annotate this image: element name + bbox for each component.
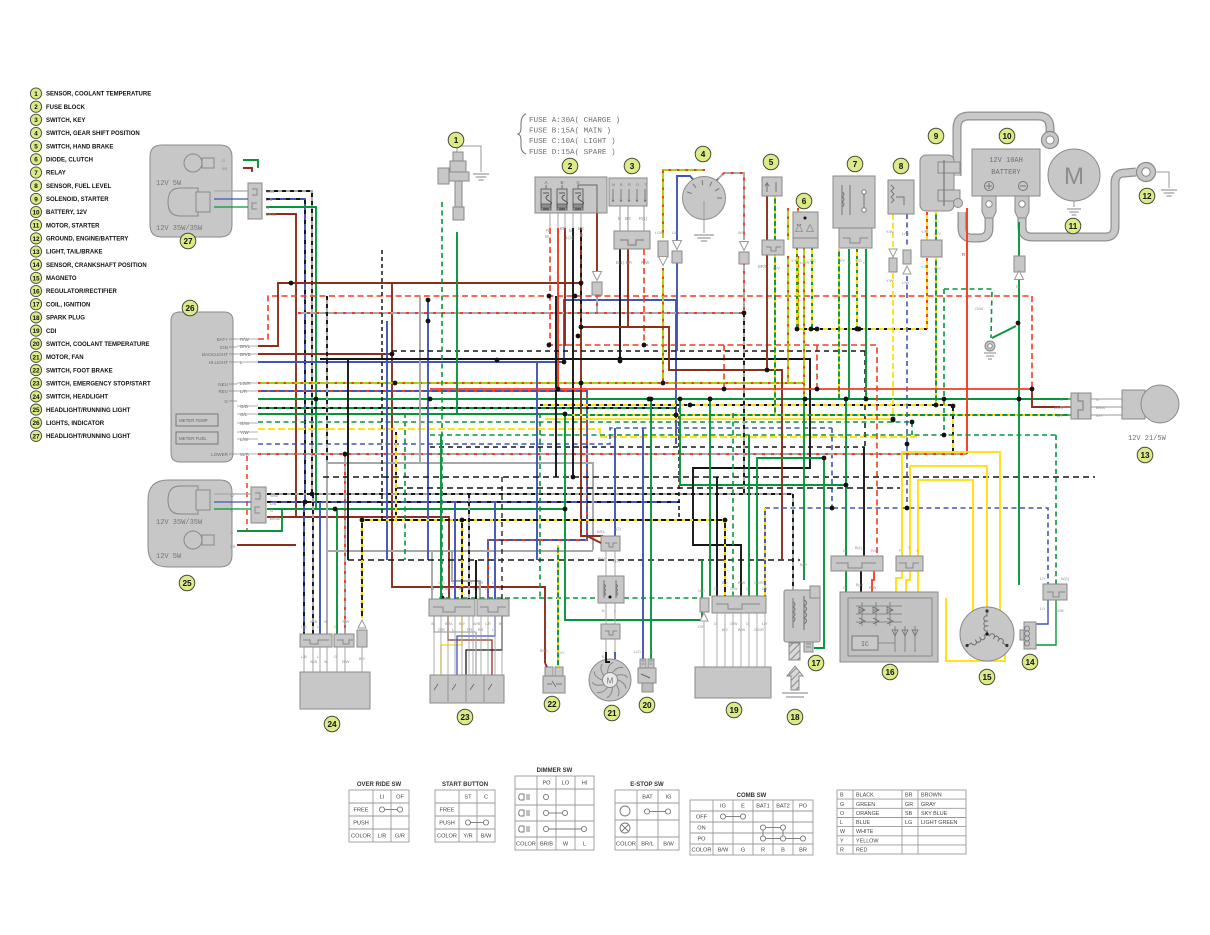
svg-text:M: M — [1064, 163, 1084, 190]
svg-text:G: G — [746, 622, 749, 626]
svg-text:G: G — [863, 260, 866, 265]
svg-text:1: 1 — [34, 91, 38, 98]
svg-text:L: L — [492, 581, 494, 585]
svg-text:BR/B: BR/B — [1054, 406, 1063, 410]
svg-text:GROUND, ENGINE/BATTERY: GROUND, ENGINE/BATTERY — [46, 237, 128, 243]
svg-text:22: 22 — [32, 368, 40, 375]
svg-text:MAGNETO: MAGNETO — [46, 276, 77, 282]
svg-text:L: L — [452, 628, 454, 632]
svg-text:G/Y: G/Y — [838, 258, 845, 263]
svg-text:26: 26 — [32, 420, 40, 427]
svg-text:SWITCH, COOLANT TEMPERATURE: SWITCH, COOLANT TEMPERATURE — [46, 342, 150, 348]
svg-text:R/W: R/W — [641, 260, 649, 265]
svg-text:16: 16 — [32, 288, 40, 295]
svg-text:ORANGE: ORANGE — [856, 811, 880, 817]
svg-text:17: 17 — [32, 302, 40, 309]
svg-text:LOWER: LOWER — [211, 452, 229, 457]
svg-text:B/Y: B/Y — [459, 587, 466, 591]
svg-text:SOLENOID, STARTER: SOLENOID, STARTER — [46, 197, 109, 203]
svg-text:B/Y: B/Y — [722, 581, 729, 585]
svg-text:WHITE: WHITE — [856, 829, 874, 835]
svg-text:11: 11 — [1069, 222, 1078, 231]
svg-text:7: 7 — [34, 170, 38, 177]
svg-text:G: G — [840, 802, 844, 808]
svg-text:BR/L: BR/L — [540, 649, 548, 653]
svg-text:12: 12 — [32, 236, 40, 243]
svg-text:BAT1: BAT1 — [756, 804, 770, 810]
svg-text:MOTOR, STARTER: MOTOR, STARTER — [46, 223, 100, 229]
svg-text:20: 20 — [642, 701, 652, 710]
svg-text:W: W — [563, 842, 569, 848]
svg-text:10: 10 — [32, 209, 40, 216]
svg-text:4: 4 — [701, 150, 706, 159]
svg-text:G/W: G/W — [1056, 609, 1064, 613]
svg-text:12: 12 — [1142, 192, 1152, 201]
svg-text:G/W: G/W — [730, 622, 738, 626]
svg-text:L: L — [583, 842, 586, 848]
svg-text:OF: OF — [396, 795, 404, 801]
svg-text:R/W: R/W — [871, 549, 879, 553]
svg-text:23: 23 — [32, 381, 40, 388]
svg-text:17: 17 — [811, 659, 821, 668]
svg-text:HEADLIGHT/RUNNING LIGHT: HEADLIGHT/RUNNING LIGHT — [46, 434, 131, 440]
svg-text:9: 9 — [934, 132, 939, 141]
svg-text:NEU: NEU — [218, 382, 228, 387]
svg-text:18: 18 — [790, 713, 800, 722]
svg-text:12V 35W/35W: 12V 35W/35W — [156, 225, 203, 233]
svg-text:G: G — [714, 587, 717, 591]
svg-text:W: W — [230, 493, 234, 498]
svg-text:SWITCH, KEY: SWITCH, KEY — [46, 118, 85, 124]
svg-text:9: 9 — [34, 196, 38, 203]
svg-text:BR/L: BR/L — [641, 842, 653, 848]
svg-text:B/W: B/W — [800, 563, 808, 567]
svg-text:BAT+: BAT+ — [217, 337, 229, 342]
svg-text:L/R: L/R — [378, 834, 387, 840]
svg-text:L(1): L(1) — [566, 235, 574, 240]
svg-text:BR: BR — [230, 544, 236, 549]
svg-text:L: L — [614, 609, 616, 613]
svg-text:Y/R: Y/R — [921, 229, 928, 234]
svg-text:R: R — [761, 848, 765, 854]
svg-text:27: 27 — [183, 237, 193, 246]
svg-text:FUSE A:30A( CHARGE ): FUSE A:30A( CHARGE ) — [529, 117, 620, 125]
svg-text:COMB SW: COMB SW — [737, 793, 767, 799]
svg-text:BR/B: BR/B — [266, 212, 276, 217]
svg-text:19: 19 — [32, 328, 40, 335]
svg-text:W: W — [324, 620, 328, 624]
svg-text:B/Y: B/Y — [459, 622, 466, 626]
svg-text:G/Y: G/Y — [558, 651, 565, 655]
svg-text:BACKLIGHT: BACKLIGHT — [202, 352, 228, 357]
svg-text:BR/L: BR/L — [445, 622, 453, 626]
svg-text:R: R — [628, 183, 631, 187]
svg-text:Y: Y — [840, 838, 844, 844]
svg-text:G: G — [230, 530, 233, 535]
svg-text:G: G — [334, 625, 337, 629]
svg-text:1: 1 — [454, 136, 459, 145]
svg-text:G/R: G/R — [698, 589, 705, 593]
svg-text:PUSH: PUSH — [353, 821, 369, 827]
svg-text:L/B: L/B — [266, 197, 272, 202]
svg-text:G: G — [843, 549, 846, 553]
svg-text:ON: ON — [697, 826, 705, 832]
svg-text:BR/B: BR/B — [270, 516, 280, 521]
svg-text:T/R: T/R — [466, 628, 472, 632]
svg-text:27: 27 — [32, 433, 40, 440]
svg-text:GRAY: GRAY — [921, 802, 936, 808]
svg-text:M: M — [612, 183, 615, 187]
svg-text:BAT2: BAT2 — [776, 804, 790, 810]
svg-text:LIGHTS, INDICATOR: LIGHTS, INDICATOR — [46, 421, 105, 427]
svg-text:R: R — [580, 233, 583, 238]
svg-text:BR: BR — [626, 260, 632, 265]
svg-text:BR/B: BR/B — [540, 842, 553, 848]
svg-text:BATTERY: BATTERY — [991, 169, 1021, 177]
svg-text:Y/W: Y/W — [886, 229, 894, 234]
svg-text:24: 24 — [327, 720, 337, 729]
svg-text:LG/R: LG/R — [655, 231, 664, 235]
svg-text:G/W: G/W — [975, 306, 983, 311]
svg-text:W: W — [431, 622, 435, 626]
svg-text:G/GR: G/GR — [754, 581, 764, 585]
svg-text:5: 5 — [769, 158, 774, 167]
svg-text:24: 24 — [32, 394, 40, 401]
svg-text:B: B — [618, 216, 621, 221]
svg-text:PO: PO — [799, 804, 808, 810]
svg-text:SENSOR, CRANKSHAFT POSITION: SENSOR, CRANKSHAFT POSITION — [46, 263, 147, 269]
svg-text:E: E — [741, 804, 745, 810]
svg-text:14: 14 — [1025, 658, 1035, 667]
svg-text:W/B: W/B — [473, 622, 481, 626]
svg-text:6: 6 — [34, 157, 38, 164]
svg-text:BAT: BAT — [642, 795, 653, 801]
svg-text:B/Y: B/Y — [359, 657, 366, 661]
svg-text:C: C — [484, 795, 488, 801]
svg-text:PO: PO — [542, 781, 551, 787]
svg-text:G: G — [714, 622, 717, 626]
svg-text:G: G — [741, 848, 745, 854]
svg-text:11: 11 — [33, 223, 40, 230]
svg-text:PUSH: PUSH — [439, 821, 455, 827]
svg-text:SWITCH, HEADLIGHT: SWITCH, HEADLIGHT — [46, 395, 108, 401]
svg-text:B: B — [840, 793, 844, 799]
svg-text:LI: LI — [380, 795, 385, 801]
svg-text:L: L — [614, 655, 616, 659]
svg-text:L/B: L/B — [270, 501, 276, 506]
svg-text:B/W: B/W — [738, 628, 746, 632]
svg-text:G/W: G/W — [730, 587, 738, 591]
svg-text:6: 6 — [802, 197, 807, 206]
svg-text:ST: ST — [464, 795, 472, 801]
svg-text:W/B: W/B — [310, 620, 318, 624]
svg-text:LO: LO — [562, 781, 570, 787]
svg-text:L(2): L(2) — [613, 559, 620, 563]
svg-text:START BUTTON: START BUTTON — [442, 782, 488, 788]
svg-text:L/W: L/W — [902, 280, 909, 285]
svg-text:FUSE D:15A( SPARE ): FUSE D:15A( SPARE ) — [529, 149, 616, 157]
svg-text:12V 10AH: 12V 10AH — [989, 157, 1023, 165]
svg-text:26: 26 — [185, 304, 195, 313]
svg-text:W: W — [545, 234, 549, 239]
svg-text:SENSOR, COOLANT TEMPERATURE: SENSOR, COOLANT TEMPERATURE — [46, 92, 151, 98]
svg-text:L/B: L/B — [672, 231, 678, 235]
svg-text:Y/W: Y/W — [886, 278, 894, 283]
svg-text:YELLOW: YELLOW — [856, 838, 879, 844]
svg-text:SWITCH, EMERGENCY STOP/START: SWITCH, EMERGENCY STOP/START — [46, 381, 151, 387]
svg-text:12V 5W: 12V 5W — [156, 180, 182, 188]
svg-text:B(1): B(1) — [598, 557, 606, 561]
svg-text:2: 2 — [568, 162, 573, 171]
svg-text:L/B: L/B — [301, 655, 307, 659]
svg-text:R/W: R/W — [869, 586, 877, 590]
svg-text:PO: PO — [697, 837, 706, 843]
svg-text:G: G — [650, 650, 653, 654]
svg-text:R: R — [546, 228, 549, 233]
svg-text:B(1): B(1) — [855, 546, 863, 550]
svg-text:E-STOP SW: E-STOP SW — [630, 782, 664, 788]
svg-text:G/R: G/R — [395, 834, 405, 840]
svg-text:O: O — [636, 183, 639, 187]
svg-text:BLUE: BLUE — [856, 820, 870, 826]
svg-text:L/R: L/R — [485, 622, 491, 626]
svg-text:G: G — [1016, 284, 1019, 289]
svg-text:R: R — [840, 848, 844, 854]
svg-text:RELAY: RELAY — [46, 171, 66, 177]
svg-text:20: 20 — [32, 341, 40, 348]
svg-text:SB: SB — [905, 811, 913, 817]
svg-text:Y/G: Y/G — [809, 258, 816, 263]
svg-text:G/GR: G/GR — [754, 628, 764, 632]
svg-text:14: 14 — [32, 262, 40, 269]
svg-text:COLOR: COLOR — [437, 834, 457, 840]
svg-text:BR: BR — [478, 581, 484, 585]
svg-text:BR: BR — [905, 793, 913, 799]
svg-text:HEADLIGHT/RUNNING LIGHT: HEADLIGHT/RUNNING LIGHT — [46, 408, 131, 414]
svg-text:SWITCH, FOOT BRAKE: SWITCH, FOOT BRAKE — [46, 368, 113, 374]
svg-text:5: 5 — [34, 144, 38, 151]
svg-text:IG: IG — [720, 804, 726, 810]
svg-text:R(1): R(1) — [639, 216, 648, 221]
svg-text:BR/L: BR/L — [758, 264, 768, 269]
svg-text:15: 15 — [982, 673, 992, 682]
svg-text:10: 10 — [1002, 132, 1012, 141]
svg-text:HI: HI — [582, 781, 588, 787]
svg-text:G/Y: G/Y — [1096, 414, 1103, 418]
svg-text:L/Y: L/Y — [762, 587, 768, 591]
svg-text:L/B: L/B — [301, 625, 307, 629]
svg-text:IG: IG — [666, 795, 672, 801]
svg-text:22: 22 — [547, 700, 557, 709]
svg-text:L: L — [840, 820, 843, 826]
svg-text:CDI: CDI — [46, 329, 57, 335]
svg-text:G: G — [848, 260, 851, 265]
svg-text:L/R: L/R — [485, 587, 491, 591]
svg-text:MOTOR, FAN: MOTOR, FAN — [46, 355, 84, 361]
svg-text:FREE: FREE — [354, 808, 369, 814]
svg-text:BR: BR — [222, 166, 228, 171]
svg-text:7: 7 — [853, 160, 858, 169]
svg-text:BROWN: BROWN — [921, 793, 942, 799]
svg-text:G: G — [230, 508, 233, 513]
svg-text:BATTERY, 12V: BATTERY, 12V — [46, 210, 87, 216]
svg-text:B/Y: B/Y — [722, 628, 729, 632]
svg-text:A: A — [545, 180, 548, 185]
svg-text:RED: RED — [856, 848, 867, 854]
svg-text:G: G — [334, 655, 337, 659]
svg-text:12V 21/5W: 12V 21/5W — [1128, 435, 1167, 443]
svg-text:REGULATOR/RECTIFIER: REGULATOR/RECTIFIER — [46, 289, 117, 295]
svg-text:G: G — [746, 587, 749, 591]
svg-text:25: 25 — [32, 407, 40, 414]
svg-text:L(2): L(2) — [634, 650, 641, 654]
svg-text:LIGHT GREEN: LIGHT GREEN — [921, 820, 958, 826]
svg-text:BLACK: BLACK — [856, 793, 874, 799]
svg-text:L: L — [492, 628, 494, 632]
svg-text:OFF: OFF — [696, 815, 708, 821]
svg-text:OVER RIDE SW: OVER RIDE SW — [357, 782, 402, 788]
svg-text:Y/R: Y/R — [463, 834, 472, 840]
svg-text:SENSOR, FUEL LEVEL: SENSOR, FUEL LEVEL — [46, 184, 112, 190]
svg-text:L/Y: L/Y — [1040, 607, 1046, 611]
svg-text:O: O — [840, 811, 844, 817]
svg-text:B(1): B(1) — [856, 583, 864, 587]
svg-text:HI.LIGHT: HI.LIGHT — [209, 360, 229, 365]
svg-text:21: 21 — [32, 354, 40, 361]
svg-text:W(1): W(1) — [1061, 577, 1070, 581]
svg-text:BR: BR — [578, 226, 584, 231]
svg-text:19: 19 — [729, 706, 739, 715]
svg-text:BR: BR — [478, 628, 484, 632]
svg-text:L/Y: L/Y — [762, 622, 768, 626]
svg-text:LG: LG — [905, 820, 912, 826]
svg-text:DIODE, CLUTCH: DIODE, CLUTCH — [46, 158, 93, 164]
svg-text:SKY BLUE: SKY BLUE — [921, 811, 948, 817]
svg-text:SWITCH, HAND BRAKE: SWITCH, HAND BRAKE — [46, 144, 113, 150]
svg-text:3: 3 — [630, 162, 635, 171]
svg-text:G: G — [222, 158, 225, 163]
svg-text:G/Y: G/Y — [934, 231, 941, 236]
svg-text:G: G — [1096, 398, 1099, 402]
svg-text:W: W — [324, 660, 328, 664]
svg-text:G/R: G/R — [438, 628, 445, 632]
svg-text:B/W: B/W — [481, 834, 492, 840]
svg-text:B(1): B(1) — [616, 260, 625, 265]
svg-text:IGN: IGN — [220, 345, 228, 350]
svg-text:W/B: W/B — [310, 660, 318, 664]
svg-text:G: G — [224, 399, 228, 404]
svg-text:13: 13 — [1140, 451, 1150, 460]
svg-text:25: 25 — [182, 579, 192, 588]
svg-text:15: 15 — [32, 275, 40, 282]
svg-text:FUSE B:15A( MAIN ): FUSE B:15A( MAIN ) — [529, 128, 611, 136]
svg-text:COLOR: COLOR — [692, 848, 712, 854]
svg-text:G: G — [1054, 574, 1057, 578]
svg-text:16: 16 — [885, 668, 895, 677]
svg-text:R/W: R/W — [342, 660, 350, 664]
svg-text:G/Y: G/Y — [773, 266, 780, 271]
svg-text:G/Y: G/Y — [934, 266, 941, 271]
svg-text:BR: BR — [799, 848, 807, 854]
svg-text:COLOR: COLOR — [351, 834, 371, 840]
svg-text:12V 5W: 12V 5W — [156, 553, 182, 561]
svg-text:8: 8 — [899, 162, 904, 171]
svg-text:IC: IC — [861, 641, 869, 648]
svg-text:W: W — [431, 587, 435, 591]
svg-text:Y/G: Y/G — [791, 258, 798, 263]
svg-text:12V 35W/35W: 12V 35W/35W — [156, 519, 203, 527]
svg-text:COIL, IGNITION: COIL, IGNITION — [46, 302, 90, 308]
svg-text:FREE: FREE — [440, 808, 455, 814]
svg-text:G: G — [843, 586, 846, 590]
svg-text:8: 8 — [34, 183, 38, 190]
svg-text:BR/L: BR/L — [445, 587, 453, 591]
svg-text:BR/B: BR/B — [1096, 406, 1105, 410]
svg-text:R/W: R/W — [342, 620, 350, 624]
svg-text:COLOR: COLOR — [516, 842, 536, 848]
svg-text:L(2): L(2) — [614, 527, 621, 531]
svg-text:BR: BR — [560, 226, 566, 231]
svg-text:GR: GR — [905, 802, 913, 808]
svg-text:G: G — [1060, 398, 1063, 402]
svg-text:3: 3 — [34, 117, 38, 124]
svg-text:GREEN: GREEN — [856, 802, 875, 808]
svg-text:METER TEMP: METER TEMP — [179, 418, 208, 423]
svg-text:4: 4 — [34, 130, 38, 137]
svg-text:W/B: W/B — [266, 189, 274, 194]
svg-text:G/Y: G/Y — [1056, 414, 1063, 418]
svg-text:L: L — [317, 655, 319, 659]
svg-text:REV: REV — [219, 389, 229, 394]
svg-text:G: G — [266, 205, 269, 210]
svg-text:LIGHT, TAIL/BRAKE: LIGHT, TAIL/BRAKE — [46, 250, 103, 256]
svg-text:B: B — [781, 848, 785, 854]
svg-text:Y/R: Y/R — [921, 264, 928, 269]
svg-text:METER FUEL: METER FUEL — [179, 436, 207, 441]
svg-text:G: G — [270, 508, 273, 513]
svg-text:18: 18 — [32, 315, 40, 322]
svg-text:Y/G: Y/G — [855, 258, 862, 263]
svg-text:B/W: B/W — [718, 848, 729, 854]
svg-text:W/R: W/R — [738, 231, 746, 235]
svg-text:SWITCH, GEAR SHIFT POSITION: SWITCH, GEAR SHIFT POSITION — [46, 131, 140, 137]
svg-text:B/W: B/W — [738, 581, 746, 585]
svg-text:B/W: B/W — [663, 842, 674, 848]
svg-text:L: L — [452, 581, 454, 585]
svg-text:L/W: L/W — [902, 231, 909, 236]
svg-text:FUSE C:10A( LIGHT ): FUSE C:10A( LIGHT ) — [529, 138, 616, 146]
svg-text:13: 13 — [32, 249, 40, 256]
svg-text:BR: BR — [625, 216, 631, 221]
svg-text:W/B: W/B — [270, 493, 278, 498]
svg-text:B: B — [561, 180, 564, 185]
svg-text:2: 2 — [34, 104, 38, 111]
svg-text:21: 21 — [607, 709, 617, 718]
svg-text:FUSE BLOCK: FUSE BLOCK — [46, 105, 86, 111]
svg-text:SPARK PLUG: SPARK PLUG — [46, 316, 85, 322]
svg-text:COLOR: COLOR — [616, 842, 636, 848]
svg-text:23: 23 — [460, 713, 470, 722]
svg-text:L: L — [317, 625, 319, 629]
svg-text:BR/L: BR/L — [597, 530, 605, 534]
svg-text:M: M — [607, 677, 614, 686]
svg-text:DIMMER SW: DIMMER SW — [537, 768, 573, 774]
svg-text:L/Y: L/Y — [1040, 577, 1046, 581]
svg-text:B: B — [569, 228, 572, 233]
